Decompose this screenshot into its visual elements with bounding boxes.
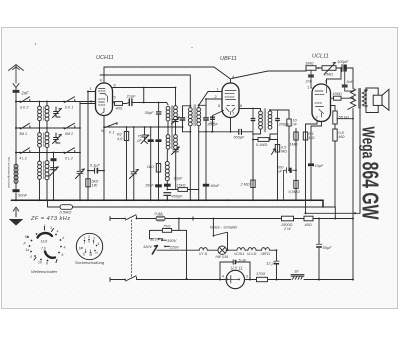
svg-text:1: 1: [84, 236, 86, 240]
oscillator padding coil: [165, 162, 169, 181]
svg-text:3: 3: [50, 226, 52, 230]
junction pin6 rail: [143, 87, 145, 89]
power switch contacts: [213, 235, 215, 237]
cap column x158.5 lower: [158, 127, 160, 200]
svg-text:UBF11: UBF11: [261, 252, 271, 256]
IF2 left LC top wire: [253, 109, 261, 112]
junction x158.5: [158, 126, 160, 128]
svg-text:100Ω: 100Ω: [333, 92, 342, 96]
junction grid cap: [295, 169, 297, 171]
IF2 core: [264, 109, 265, 133]
selector arrow: [152, 246, 157, 255]
power switch right drop: [227, 235, 229, 250]
IF2 primary winding: [259, 111, 263, 129]
svg-text:1kΩ: 1kΩ: [147, 165, 154, 169]
svg-text:Netze - Schalter: Netze - Schalter: [210, 226, 238, 230]
junction B+ bottom: [352, 279, 354, 281]
svg-text:1MΩ: 1MΩ: [290, 143, 298, 147]
speaker magnet: [366, 88, 378, 113]
IF1 secondary winding: [197, 108, 201, 126]
svg-text:b K 1: b K 1: [65, 106, 73, 110]
svg-text:4: 4: [57, 230, 59, 234]
svg-text:UCH11: UCH11: [96, 55, 114, 61]
coil L2a (row2 left winding): [39, 128, 41, 133]
anode rail UCH11 to IF1: [100, 75, 190, 106]
terminal tick on mains wire: [192, 217, 194, 220]
svg-text:www.radiomuseum.org: www.radiomuseum.org: [7, 157, 11, 188]
trimmer column x133.8: [130, 127, 139, 200]
svg-text:110V: 110V: [143, 244, 152, 249]
cap 100pF diode load: [210, 117, 215, 118]
UBF11 pin5 lead diode: [213, 111, 224, 132]
core row3: [42, 161, 44, 179]
svg-text:40Ω: 40Ω: [116, 107, 123, 111]
svg-text:UCH11: UCH11: [234, 252, 244, 256]
pot 0.5M: [275, 145, 279, 153]
svg-text:0 L 2: 0 L 2: [65, 157, 73, 161]
svg-text:0,1MΩ: 0,1MΩ: [256, 143, 267, 147]
UCH11 pin1 grid lead: [88, 91, 96, 93]
svg-text:1W: 1W: [92, 184, 98, 188]
svg-text:UCL11: UCL11: [247, 252, 257, 256]
junction trimmer top: [133, 126, 135, 128]
resistor 0,5M lower: [294, 180, 298, 188]
wire anode to cathode network: [337, 118, 353, 120]
svg-text:4: 4: [98, 242, 100, 246]
switch K2 row1 left: [19, 101, 21, 103]
svg-text:220V: 220V: [169, 245, 180, 250]
tube UCL11 envelope: [312, 84, 331, 122]
junction IF1 sec top: [198, 104, 200, 106]
svg-text:2 W: 2 W: [283, 227, 291, 231]
ganged switch link: [131, 220, 133, 278]
svg-text:13,8: 13,8: [41, 240, 48, 244]
selector right edge: [186, 230, 188, 278]
tap 150V: [161, 239, 163, 241]
IF1 core: [194, 105, 195, 127]
switch lever row2 left: [21, 123, 30, 129]
IF2 right winding bottom lead: [270, 134, 278, 140]
svg-text:100: 100: [209, 121, 215, 125]
svg-text:MΩ: MΩ: [339, 135, 345, 139]
svg-text:M: M: [90, 253, 93, 257]
IF2 left cap: [252, 109, 254, 201]
junction 30pF top: [158, 102, 160, 104]
junction screen feed left: [305, 212, 307, 214]
cap 2nF UCL grid: [308, 70, 313, 88]
UCH11 pin 4 top lead: [103, 67, 105, 83]
switch row3 left: [19, 152, 21, 154]
heater chain wire: [208, 249, 277, 251]
filter cap 50uF column: [318, 219, 320, 280]
speck: [35, 43, 36, 44]
output transformer core: [359, 89, 360, 109]
IF2 right cap: [277, 110, 279, 140]
series cap on osc column: [164, 184, 171, 187]
resistor 40ohm: [115, 102, 123, 106]
junction grid dot: [87, 91, 89, 93]
switch lever row3 left: [21, 148, 30, 154]
mains top wire: [137, 218, 354, 220]
svg-text:k: k: [63, 236, 65, 240]
cap 12uF plates: [274, 260, 279, 262]
tap 220V: [164, 246, 166, 248]
svg-text:µF: µF: [278, 170, 283, 174]
cathode bypass column x311: [310, 126, 312, 200]
junction pin6: [252, 108, 254, 110]
AVC bus: [48, 200, 336, 219]
trimmer row2: [53, 133, 62, 144]
junction 50uF bottom: [318, 279, 320, 281]
svg-text:7,6: 7,6: [41, 247, 46, 251]
fuse 0,5A: [156, 216, 165, 221]
resistor 100ohm row: [331, 97, 354, 99]
rotary switch diagram Wellenschalter: [27, 227, 62, 263]
junction fuse left: [136, 218, 138, 220]
junction 12uF bottom: [276, 279, 278, 281]
junction bus2 end: [334, 218, 336, 220]
junction IF1 prim top: [189, 105, 191, 107]
svg-text:UY 11: UY 11: [199, 252, 208, 256]
resistor 2M volume column: [252, 140, 254, 201]
junction selector bottom: [186, 278, 188, 280]
svg-text:0,1µF: 0,1µF: [90, 164, 100, 168]
svg-text:0,5MΩ: 0,5MΩ: [289, 190, 300, 194]
junction IF2 prim bottom: [252, 133, 254, 135]
junction 12uF heater: [276, 249, 278, 251]
resistor 0,8M: [333, 129, 337, 141]
svg-text:2: 2: [88, 235, 90, 239]
switch lever row2 right: [65, 123, 75, 129]
junction 75pF top: [144, 126, 146, 128]
junction B+ top wire: [352, 218, 354, 220]
UBF11 pin1 lead: [199, 92, 222, 106]
svg-text:0: 0: [30, 255, 32, 259]
cathode 50k column: [331, 106, 336, 208]
junction pot left: [318, 67, 320, 69]
UBF11 pin6 lead: [239, 108, 253, 110]
svg-text:8: 8: [46, 262, 48, 266]
switch row3 right: [63, 152, 65, 154]
svg-text:3: 3: [246, 275, 248, 279]
heater UCH11: [237, 248, 245, 251]
AF cap 100uF wire: [284, 170, 297, 200]
antenna coil L1b (row1 right winding): [46, 102, 48, 106]
AVC row wire: [104, 126, 183, 128]
padding cap column x150.7: [150, 127, 152, 200]
svg-text:15kΩ: 15kΩ: [177, 184, 186, 188]
tube socket diagram Sockelschaltung: [76, 233, 102, 259]
heater UCL11: [248, 248, 256, 251]
wire antenna down to bus: [15, 102, 17, 201]
svg-text:MΩ: MΩ: [281, 150, 287, 154]
UY11 electrodes: [228, 276, 239, 284]
break arrow on antenna ground lead: [13, 207, 19, 217]
capacitor 2nF antenna: [13, 88, 19, 102]
svg-text:5 nF: 5 nF: [239, 259, 247, 263]
svg-text:2nF: 2nF: [305, 80, 313, 84]
trimmer 75pF: [141, 127, 149, 144]
junction avc at IF1: [182, 126, 184, 128]
svg-text:UBF11: UBF11: [220, 56, 237, 62]
UCH11 electrodes: [99, 89, 108, 114]
resistor 75ohm: [162, 229, 171, 233]
oscillator grid wire: [113, 101, 167, 104]
core row2: [42, 133, 44, 147]
svg-text:12 µF: 12 µF: [266, 261, 277, 266]
filter cap 12uF column: [276, 250, 278, 279]
svg-text:1a: 1a: [26, 248, 30, 252]
cap 500pF series: [239, 129, 242, 134]
grid stopper rail UCL11: [306, 68, 342, 71]
socket pins: [81, 239, 97, 254]
resistor 1k column: [156, 164, 160, 173]
junction pin7 det row: [230, 131, 232, 133]
wire pin6 drop: [143, 88, 145, 103]
mains switch bottom: [124, 279, 126, 281]
svg-text:Wellenschalter: Wellenschalter: [31, 269, 58, 274]
svg-text:40Ω: 40Ω: [305, 223, 312, 227]
UBF11 pin4 top lead: [230, 79, 232, 83]
osc trimmer lower: [172, 147, 180, 190]
grid leak column x296: [295, 129, 297, 201]
antenna coil L1a (row1 left winding): [39, 102, 41, 107]
cap 100uF plates: [286, 168, 288, 173]
speaker cone: [382, 89, 389, 110]
capacitor 21pF: [129, 99, 132, 106]
selector tap wires: [159, 239, 170, 247]
resistor 1M grid: [294, 132, 298, 140]
svg-text:4: 4: [222, 275, 224, 279]
svg-text:60nF: 60nF: [211, 184, 220, 188]
rectifier output wire: [245, 279, 354, 281]
volume pot column: [277, 140, 279, 201]
wire feedback row: [167, 187, 198, 190]
speck2: [191, 47, 192, 48]
svg-text:170Ω: 170Ω: [256, 272, 265, 276]
resistor 0,1M UCL: [303, 132, 307, 140]
svg-text:125V: 125V: [150, 237, 160, 242]
selector to heater wire: [153, 250, 199, 253]
rectifier UY11: [226, 270, 244, 288]
fuse inner lines: [158, 218, 164, 220]
junction bridge left: [87, 170, 89, 172]
svg-text:50µF: 50µF: [323, 245, 333, 250]
B+ top rail: [104, 67, 306, 79]
padder trimmer column: [76, 102, 85, 201]
antenna: [9, 65, 24, 84]
cap 60nF on detector column: [203, 184, 209, 187]
output transformer primary: [348, 68, 356, 280]
junction pin2 cap column: [205, 98, 207, 100]
oscillator coil bottom right winding: [175, 127, 177, 135]
svg-text:150V: 150V: [167, 238, 177, 243]
svg-text:5: 5: [83, 253, 85, 257]
resistor 0,5M AVC: [60, 205, 73, 210]
antenna arrow: [13, 84, 19, 88]
junction 2M top: [252, 139, 254, 141]
junction osc top: [175, 87, 177, 89]
resistor 5k 1W: [86, 179, 90, 187]
svg-text:6: 6: [79, 247, 81, 251]
svg-text:4 L 1: 4 L 1: [19, 157, 27, 161]
switch lever row3 right: [65, 148, 75, 154]
IF2 secondary winding: [268, 111, 272, 129]
svg-text:100pF: 100pF: [337, 59, 349, 64]
cap 10nF cathode: [308, 163, 314, 166]
mains terminal bottom: [110, 278, 124, 282]
svg-text:UCL11: UCL11: [312, 54, 329, 60]
IF2 primary bottom lead: [253, 129, 261, 134]
cap 450pF: [164, 193, 171, 201]
padding cap plates: [148, 139, 154, 142]
cap 15nF on column: [155, 184, 162, 187]
svg-text:90pF: 90pF: [174, 177, 183, 181]
svg-text:0M 2: 0M 2: [65, 132, 73, 136]
AF grid column x289: [288, 110, 290, 170]
UCL11 electrodes: [315, 87, 327, 117]
choke Dr: [291, 275, 304, 280]
IF1 primary winding: [188, 108, 192, 126]
pot 2M arrow: [324, 63, 336, 75]
svg-text:3: 3: [93, 237, 95, 241]
junction osc column: [166, 189, 168, 191]
IF1 secondary cap column: [205, 99, 207, 200]
svg-text:2nF: 2nF: [21, 91, 30, 96]
IF1 secondary cap plates: [203, 117, 209, 118]
svg-text:2 MΩ: 2 MΩ: [240, 183, 250, 187]
junction avc osc left: [167, 126, 169, 128]
svg-text:Sockelschaltung: Sockelschaltung: [75, 260, 105, 265]
junction screen feed right: [354, 212, 356, 214]
oscillator coil top right winding: [175, 88, 177, 106]
resistor 2M: [251, 180, 255, 188]
selector riser: [150, 219, 187, 239]
svg-text:75Ω: 75Ω: [163, 224, 171, 229]
junction AF row at IF2: [269, 139, 271, 141]
junction pin5 det row: [211, 131, 213, 133]
junction feedback right: [189, 189, 191, 191]
IF1 primary cap plates: [180, 117, 186, 118]
svg-text:pF: pF: [137, 139, 143, 143]
svg-text:nF: nF: [293, 123, 298, 127]
IF1 primary LC top wire: [183, 105, 191, 107]
svg-text:N: N: [101, 129, 104, 133]
junction dots left block: [15, 101, 312, 202]
tube UCH11 envelope: [96, 83, 113, 116]
coil L2b (row2 right winding): [46, 128, 48, 132]
capacitor 1nF row3: [53, 153, 55, 201]
switch row1 right: [63, 101, 65, 103]
UCH11 pin2 lead: [80, 103, 96, 105]
switch row2 right: [63, 127, 65, 129]
coil L3b (row3 right winding): [46, 153, 48, 161]
switch lever row1 right: [65, 97, 75, 103]
cap 100pF top: [342, 65, 353, 72]
heater UBF11: [262, 248, 270, 251]
resistor R2 column: [126, 127, 128, 200]
IF1 secondary LC top wire: [199, 104, 206, 106]
detector output wire: [270, 109, 289, 111]
socket pin ticks: [85, 241, 94, 252]
mains switch top lever: [126, 215, 137, 220]
coil L3a (row3 left winding): [39, 153, 41, 162]
cathode column UCH11: [103, 116, 105, 201]
junction pad top: [150, 126, 152, 128]
detector row wire: [206, 131, 253, 133]
cap plates x158.5: [156, 139, 162, 142]
resistor 0.1M horizontal: [258, 138, 269, 142]
svg-text:M: M: [25, 235, 28, 239]
AF coupling row: [253, 139, 278, 141]
screen feed wire: [306, 212, 361, 214]
junction x289 det: [288, 169, 290, 171]
osc core: [171, 106, 172, 149]
svg-text:MΩ: MΩ: [309, 136, 315, 140]
junction 21pF rail: [143, 102, 145, 104]
cap 30pF column: [158, 103, 160, 128]
trimmer row1: [53, 107, 62, 118]
antenna input coil bottom left: [14, 164, 18, 183]
junction 50uF top: [318, 218, 320, 220]
junction IF1 prim bottom: [189, 131, 191, 133]
IF1 primary cap column: [182, 106, 184, 132]
svg-text:U Y 11: U Y 11: [231, 266, 243, 271]
power switch left drop: [212, 219, 214, 236]
resistor 50k: [333, 111, 337, 124]
svg-text:21pF: 21pF: [126, 94, 137, 99]
trimmer row3: [50, 167, 59, 176]
UCL11 plate lead bottom: [306, 122, 322, 127]
cap 5nF rectifier plates: [232, 260, 234, 264]
oscillator coil top left winding: [167, 103, 168, 105]
svg-text:6: 6: [62, 253, 64, 257]
speaker voice coil box: [373, 95, 382, 105]
junction avc-cathode: [103, 126, 105, 128]
junction avc osc right: [175, 126, 177, 128]
ground symbol: [10, 220, 22, 226]
core row1: [42, 107, 44, 121]
svg-text:10µF: 10µF: [315, 164, 324, 168]
resistor 15k: [178, 188, 188, 192]
svg-text:0,5MΩ: 0,5MΩ: [60, 210, 72, 215]
oscillator coil bottom left winding: [167, 127, 169, 135]
switch row2 left: [19, 127, 21, 129]
IF2 secondary top lead: [270, 110, 278, 111]
junction 5nF top: [344, 67, 346, 69]
junction pot right: [340, 67, 342, 69]
junction bypass right: [249, 279, 251, 281]
power switch lever: [214, 232, 228, 235]
svg-text:K 1: K 1: [109, 131, 114, 135]
mains bottom wire: [137, 279, 227, 281]
svg-text:50nF: 50nF: [18, 193, 28, 198]
junction bypass left: [219, 279, 221, 281]
IF1 secondary LC bottom wire: [199, 131, 206, 133]
resistor R2 4ohm: [124, 132, 128, 141]
dial lamp: [218, 246, 226, 254]
UBF11 pin7 lead: [230, 118, 232, 132]
svg-text:15nF: 15nF: [145, 184, 154, 188]
cap 50uF plates: [316, 243, 322, 245]
resistor 100ohm: [334, 96, 342, 100]
junction R2 top: [126, 126, 128, 128]
UCL11 screen lead: [327, 68, 342, 84]
resistor 1M UCL: [306, 66, 316, 71]
switch lever row1 left: [21, 97, 30, 103]
svg-text:30pF: 30pF: [145, 110, 155, 115]
osc trimmer upper: [172, 117, 180, 127]
